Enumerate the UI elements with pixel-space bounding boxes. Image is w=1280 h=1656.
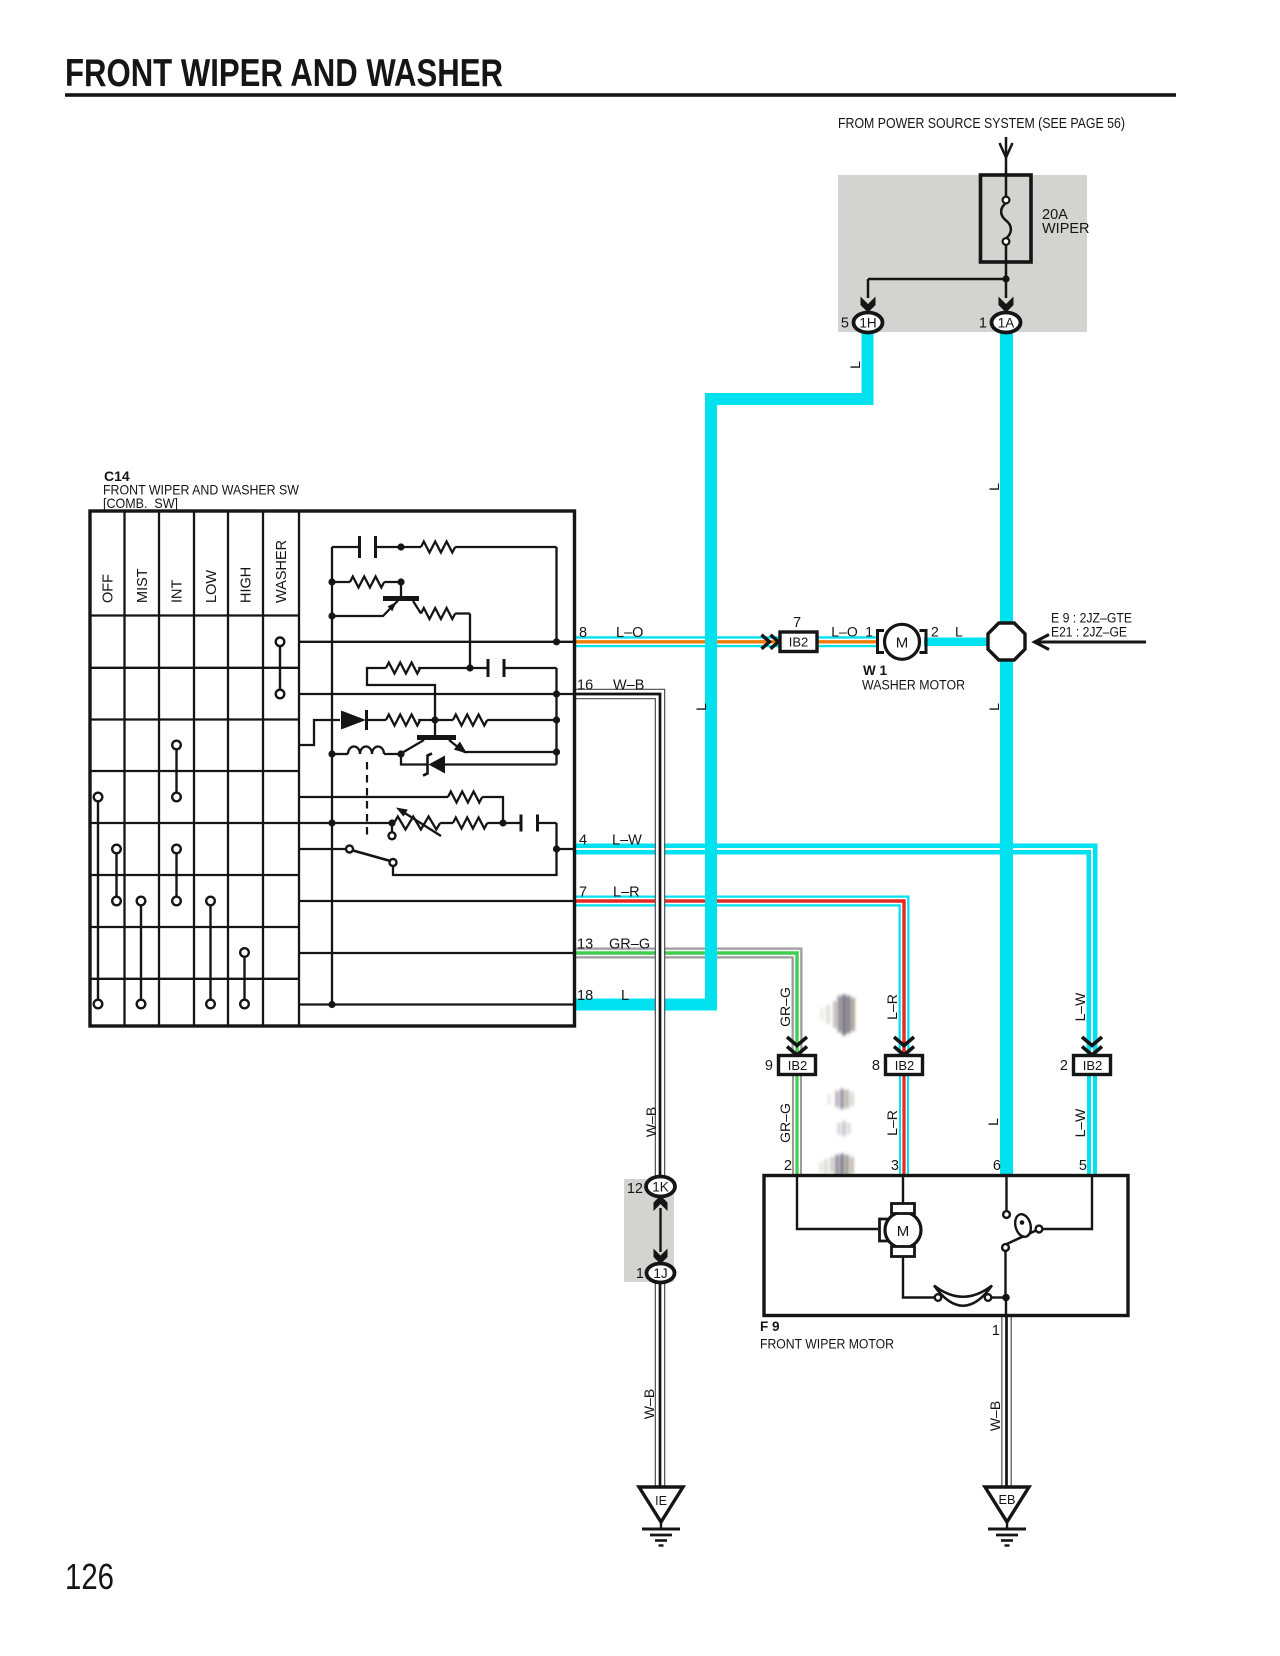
connector 1 1A	[979, 313, 1021, 333]
resistor R7 (row 797)	[448, 792, 503, 824]
svg-text:FRONT WIPER AND WASHER: FRONT WIPER AND WASHER	[65, 52, 503, 95]
svg-text:LOW: LOW	[204, 570, 220, 603]
wire L-W (IB2 to wiper motor pin 5)	[1087, 1074, 1097, 1176]
junction dots internal	[328, 543, 560, 1008]
front wiper motor F9 box	[764, 1176, 1128, 1316]
internal bus vertical A	[331, 547, 333, 1005]
capacitor C2	[488, 659, 504, 677]
svg-text:2: 2	[784, 1158, 792, 1174]
svg-text:1K: 1K	[652, 1180, 669, 1195]
switch C14 outer box	[90, 511, 575, 1026]
switch row wires in circuit area	[90, 642, 575, 1005]
ground EB	[985, 1487, 1029, 1546]
capacitor C1	[360, 536, 376, 558]
svg-text:IB2: IB2	[789, 635, 809, 650]
connector 1K/1J gray background	[624, 1179, 674, 1282]
svg-text:HIGH: HIGH	[239, 567, 255, 603]
junction dot below fuse	[1002, 275, 1009, 282]
svg-text:7: 7	[579, 885, 587, 901]
svg-text:5: 5	[841, 316, 849, 332]
wire from power source with arrow into fuse	[1000, 137, 1013, 197]
svg-text:9: 9	[765, 1058, 773, 1074]
wire pin 3 to motor top	[902, 1177, 904, 1205]
svg-text:OFF: OFF	[101, 574, 117, 603]
connector arrow to IB2 pin 9	[787, 1037, 807, 1055]
connector 1K-1J link arrows	[654, 1196, 668, 1212]
svg-text:WASHER MOTOR: WASHER MOTOR	[862, 678, 965, 693]
capacitor C3	[521, 815, 538, 832]
diode D1	[341, 710, 386, 730]
svg-text:L–O: L–O	[616, 625, 643, 641]
contact chain INT upper	[175, 745, 177, 797]
variable resistor VR1	[394, 808, 453, 837]
connector 5 1H	[841, 313, 883, 333]
resistor R1	[421, 542, 455, 553]
svg-text:L: L	[621, 988, 629, 1004]
svg-text:L–W: L–W	[1072, 992, 1088, 1022]
svg-text:L–W: L–W	[612, 833, 642, 849]
wire L-R (IB2 to wiper motor pin 3)	[899, 1074, 909, 1176]
svg-text:WASHER: WASHER	[274, 540, 290, 603]
arrow into connector 1H	[861, 297, 876, 313]
svg-text:GR–G: GR–G	[777, 1103, 793, 1143]
contact chain MIST	[140, 901, 142, 1004]
connector 1 1J	[636, 1264, 675, 1283]
wires cap C2 row	[470, 668, 557, 765]
junction dot cam/park common	[1002, 1294, 1010, 1302]
wiper motor M	[880, 1204, 922, 1257]
svg-text:1A: 1A	[998, 316, 1015, 331]
connector 9 IB2	[765, 1056, 816, 1075]
svg-text:M: M	[897, 1223, 910, 1240]
wire common to pin 1	[1005, 1298, 1007, 1318]
svg-text:FROM POWER SOURCE SYSTEM (SEE: FROM POWER SOURCE SYSTEM (SEE PAGE 56)	[838, 116, 1125, 132]
svg-text:126: 126	[65, 1556, 114, 1597]
resistor R6	[418, 715, 556, 726]
svg-text:5: 5	[1079, 1158, 1087, 1174]
switch grid row lines	[90, 616, 299, 979]
cam plate crescent	[934, 1286, 1007, 1306]
resistor R3 (Q1 collector)	[421, 608, 470, 668]
contact chain OFF short	[115, 849, 117, 901]
svg-text:18: 18	[577, 988, 593, 1004]
arrow into connector 1A	[999, 297, 1014, 313]
connector 8 IB2	[872, 1056, 923, 1075]
svg-text:L–R: L–R	[884, 1110, 900, 1136]
svg-text:L: L	[693, 703, 709, 711]
svg-text:L–W: L–W	[1072, 1108, 1088, 1138]
title rule	[65, 93, 1176, 97]
wire W-B (wiper motor pin 1 to ground EB)	[1001, 1316, 1012, 1488]
resistor R2	[332, 577, 401, 588]
dashed mechanical link	[366, 762, 368, 836]
wire pin 2 to motor brush	[797, 1177, 878, 1229]
svg-text:W–B: W–B	[641, 1389, 657, 1419]
svg-text:1J: 1J	[653, 1266, 667, 1281]
svg-text:L: L	[985, 1118, 1001, 1126]
wire cap C1 top row	[332, 547, 557, 642]
svg-text:1: 1	[979, 316, 987, 332]
svg-text:1H: 1H	[859, 316, 876, 331]
svg-text:IE: IE	[655, 1494, 667, 1508]
washer motor W1	[862, 624, 965, 693]
svg-text:W–B: W–B	[987, 1401, 1003, 1431]
svg-text:EB: EB	[999, 1493, 1016, 1507]
svg-text:8: 8	[579, 625, 587, 641]
smudge artifacts	[821, 996, 853, 1176]
switch grid column lines	[125, 511, 300, 1026]
svg-text:8: 8	[872, 1058, 880, 1074]
svg-text:W–B: W–B	[643, 1107, 659, 1137]
svg-text:E21 : 2JZ–GE: E21 : 2JZ–GE	[1051, 625, 1127, 640]
svg-text:L–R: L–R	[613, 885, 640, 901]
svg-text:IB2: IB2	[1083, 1058, 1103, 1073]
svg-text:4: 4	[579, 833, 587, 849]
contact chain LOW	[209, 901, 211, 1004]
wire L-O (IB2 to washer motor)	[817, 636, 878, 647]
wire GR-G pin 13 (switch to IB2)	[575, 953, 797, 1057]
zener diode D2	[401, 754, 557, 776]
wire L thick cyan from connector 1A down to wiper motor pin 6	[1000, 332, 1013, 1176]
svg-text:W–B: W–B	[613, 678, 644, 694]
svg-text:L: L	[847, 361, 863, 369]
wire L-W pin 4 (switch to IB2)	[575, 849, 1092, 1057]
fuse 20A WIPER	[981, 175, 1090, 262]
svg-text:1: 1	[636, 1266, 644, 1282]
connector 7 IB2 (washer)	[780, 615, 817, 652]
wire W-B pin 16 (switch to connector 1K)	[575, 694, 660, 1180]
resistor R5	[386, 715, 420, 726]
ground IE	[639, 1487, 683, 1546]
wire L-R pin 7 (switch to IB2)	[575, 901, 904, 1057]
svg-text:IB2: IB2	[895, 1058, 915, 1073]
svg-text:IB2: IB2	[788, 1058, 808, 1073]
washer lever switch	[346, 846, 557, 876]
open contact below VR1	[389, 823, 396, 839]
svg-text:W 1: W 1	[863, 663, 887, 678]
svg-text:7: 7	[793, 615, 801, 631]
park switch	[1002, 1177, 1092, 1298]
arrow E9/E21 pointing left	[1035, 635, 1147, 650]
svg-text:FRONT WIPER MOTOR: FRONT WIPER MOTOR	[760, 1337, 894, 1352]
svg-text:2: 2	[1060, 1058, 1068, 1074]
svg-text:GR–G: GR–G	[777, 987, 793, 1027]
inductor L1	[332, 747, 401, 754]
svg-text:12: 12	[627, 1181, 643, 1197]
resistor R8	[453, 818, 487, 829]
svg-text:INT: INT	[170, 580, 186, 604]
svg-text:2: 2	[931, 624, 939, 640]
transistor Q2	[401, 738, 557, 754]
wire W-B (connector 1J to ground IE)	[655, 1279, 666, 1488]
octagon noise filter on 1A wire	[988, 623, 1025, 660]
svg-text:L–O: L–O	[831, 624, 858, 640]
svg-text:L–R: L–R	[884, 994, 900, 1020]
connector 2 IB2	[1060, 1056, 1111, 1075]
svg-text:E 9 : 2JZ–GTE: E 9 : 2JZ–GTE	[1051, 611, 1132, 626]
contact chain OFF long	[97, 797, 99, 1004]
contact chain INT lower	[175, 849, 177, 901]
svg-text:GR–G: GR–G	[609, 937, 650, 953]
svg-text:M: M	[896, 635, 909, 652]
svg-text:F 9: F 9	[760, 1319, 780, 1334]
svg-text:1: 1	[992, 1323, 1000, 1339]
connector arrow to IB2 pin 2	[1082, 1037, 1102, 1055]
contact chain HIGH	[243, 953, 245, 1005]
svg-text:L: L	[986, 483, 1002, 491]
contact chain WASHER	[279, 642, 281, 694]
connector 12 1K	[627, 1177, 675, 1198]
wires cap C3 row to pin 4	[487, 823, 575, 849]
svg-text:WIPER: WIPER	[1042, 221, 1090, 237]
connector arrow to IB2 pin 7 (washer)	[762, 635, 779, 649]
svg-text:3: 3	[891, 1158, 899, 1174]
wire fuse output tee	[868, 244, 1006, 298]
wire L cyan washer motor to octagon	[924, 638, 1007, 647]
connector arrow to IB2 pin 8	[894, 1037, 914, 1055]
svg-text:13: 13	[577, 937, 593, 953]
svg-text:16: 16	[577, 678, 593, 694]
wire motor bottom to cam	[903, 1257, 935, 1298]
svg-text:MIST: MIST	[135, 568, 151, 603]
junction block gray background	[838, 175, 1087, 332]
svg-text:[COMB. SW]: [COMB. SW]	[103, 495, 178, 511]
svg-text:1: 1	[865, 624, 873, 640]
wire L thick cyan from connector 1H down-left-down to switch pin 18	[575, 332, 868, 1005]
svg-text:L: L	[986, 703, 1002, 711]
svg-text:6: 6	[993, 1158, 1001, 1174]
wire L-O pin 8 (switch to IB2)	[575, 636, 780, 647]
resistor R4 and step wire to Q2 base	[367, 663, 470, 738]
svg-text:L: L	[955, 624, 963, 640]
wire GR-G (IB2 to wiper motor pin 2)	[792, 1074, 802, 1176]
transistor Q1	[332, 582, 421, 616]
